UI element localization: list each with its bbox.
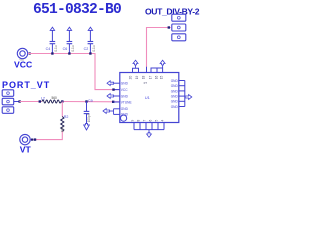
VCC connector P1: [17, 48, 27, 58]
svg-text:651-0832-B0: 651-0832-B0: [33, 2, 121, 18]
connector P2 pin boxes: [2, 90, 14, 114]
U1 left pin 5 GND: [103, 107, 129, 116]
U1 top pins 20/19 strapped to power arrow: [129, 60, 139, 79]
inductor L1: [39, 96, 61, 103]
svg-text:7: 7: [143, 120, 147, 122]
svg-text:GND: GND: [171, 100, 179, 104]
connector J2 pin boxes: [172, 14, 186, 41]
svg-text:15: 15: [160, 76, 164, 80]
U1 bottom pins bus to ground arrow: [131, 120, 165, 138]
U1 left pin 4 VTUNE: [114, 101, 132, 105]
svg-text:U1: U1: [145, 95, 151, 100]
wire R2 to VT: [30, 132, 62, 140]
svg-text:0.1u: 0.1u: [71, 45, 75, 51]
capacitor C9: [84, 99, 93, 124]
U1 left pin 3 GND: [107, 94, 129, 99]
svg-text:19: 19: [135, 76, 139, 80]
pin dot VT connector: [31, 139, 33, 141]
capacitor C2: [84, 27, 96, 55]
svg-text:C9: C9: [88, 99, 93, 103]
svg-text:16: 16: [154, 76, 158, 80]
svg-text:GND: GND: [171, 84, 179, 88]
svg-text:OUT_DIV-BY-2: OUT_DIV-BY-2: [145, 7, 200, 17]
svg-text:4: 4: [161, 120, 165, 122]
svg-text:0.1u: 0.1u: [54, 45, 58, 51]
svg-text:GND: GND: [121, 82, 129, 86]
junction C9: [85, 100, 87, 102]
junction at VTUNE pin: [112, 101, 114, 103]
svg-text:L2: L2: [41, 97, 45, 101]
U1 top pin 18 OUT wire: [141, 67, 146, 80]
resistor R2: [60, 115, 68, 132]
svg-text:10K: 10K: [60, 126, 64, 133]
capacitor C6: [63, 27, 75, 55]
svg-text:17: 17: [149, 76, 153, 80]
svg-text:8: 8: [137, 120, 141, 122]
U1 left pin 2 VCC: [112, 88, 128, 92]
U1 right pins GND ladder: [171, 79, 192, 109]
wire L1 to VTUNE: [61, 101, 120, 103]
svg-text:100pF: 100pF: [87, 113, 91, 122]
svg-text:560: 560: [52, 96, 58, 100]
svg-text:0.1u: 0.1u: [92, 45, 96, 51]
svg-text:GND: GND: [171, 79, 179, 83]
svg-text:GND: GND: [171, 95, 179, 99]
junction at J2: [168, 26, 170, 28]
U1 top pins 17/16/15 strapped to power arrow: [149, 60, 166, 79]
svg-text:vcc: vcc: [20, 58, 25, 62]
wire OUT_DIV-BY-2 net: [147, 28, 171, 68]
op IC U1 body: [120, 73, 179, 123]
svg-text:GND: GND: [121, 107, 129, 111]
svg-text:VTUNE: VTUNE: [121, 101, 132, 105]
svg-text:VCC: VCC: [121, 88, 128, 92]
pin dot VCC connector: [29, 52, 31, 54]
wire VCC rail: [28, 54, 120, 90]
svg-text:9: 9: [131, 120, 135, 122]
svg-text:GND: GND: [121, 112, 129, 116]
junction R2 top: [61, 100, 63, 102]
ground below C9: [84, 124, 90, 130]
pin1 indicator circle: [121, 115, 127, 121]
svg-text:20: 20: [129, 76, 133, 80]
svg-text:GND: GND: [171, 89, 179, 93]
wire R2 branch: [61, 102, 63, 117]
svg-text:5: 5: [155, 120, 159, 122]
svg-text:6: 6: [149, 120, 153, 122]
VT connector P3: [20, 134, 30, 144]
U1 left pin 1 GND: [107, 81, 129, 86]
svg-text:C4: C4: [46, 47, 51, 51]
svg-text:C2: C2: [84, 47, 89, 51]
svg-text:F?: F?: [144, 81, 148, 85]
svg-text:PORT_VT: PORT_VT: [2, 80, 50, 90]
junction VT: [34, 138, 36, 140]
svg-text:R2: R2: [64, 115, 69, 119]
svg-text:GND: GND: [171, 105, 179, 109]
svg-text:GND: GND: [121, 94, 129, 98]
wire PORT_VT net: [14, 101, 20, 103]
svg-text:C6: C6: [63, 47, 68, 51]
svg-text:VT: VT: [20, 145, 32, 154]
capacitor C4: [46, 27, 58, 55]
svg-text:18: 18: [141, 76, 145, 80]
